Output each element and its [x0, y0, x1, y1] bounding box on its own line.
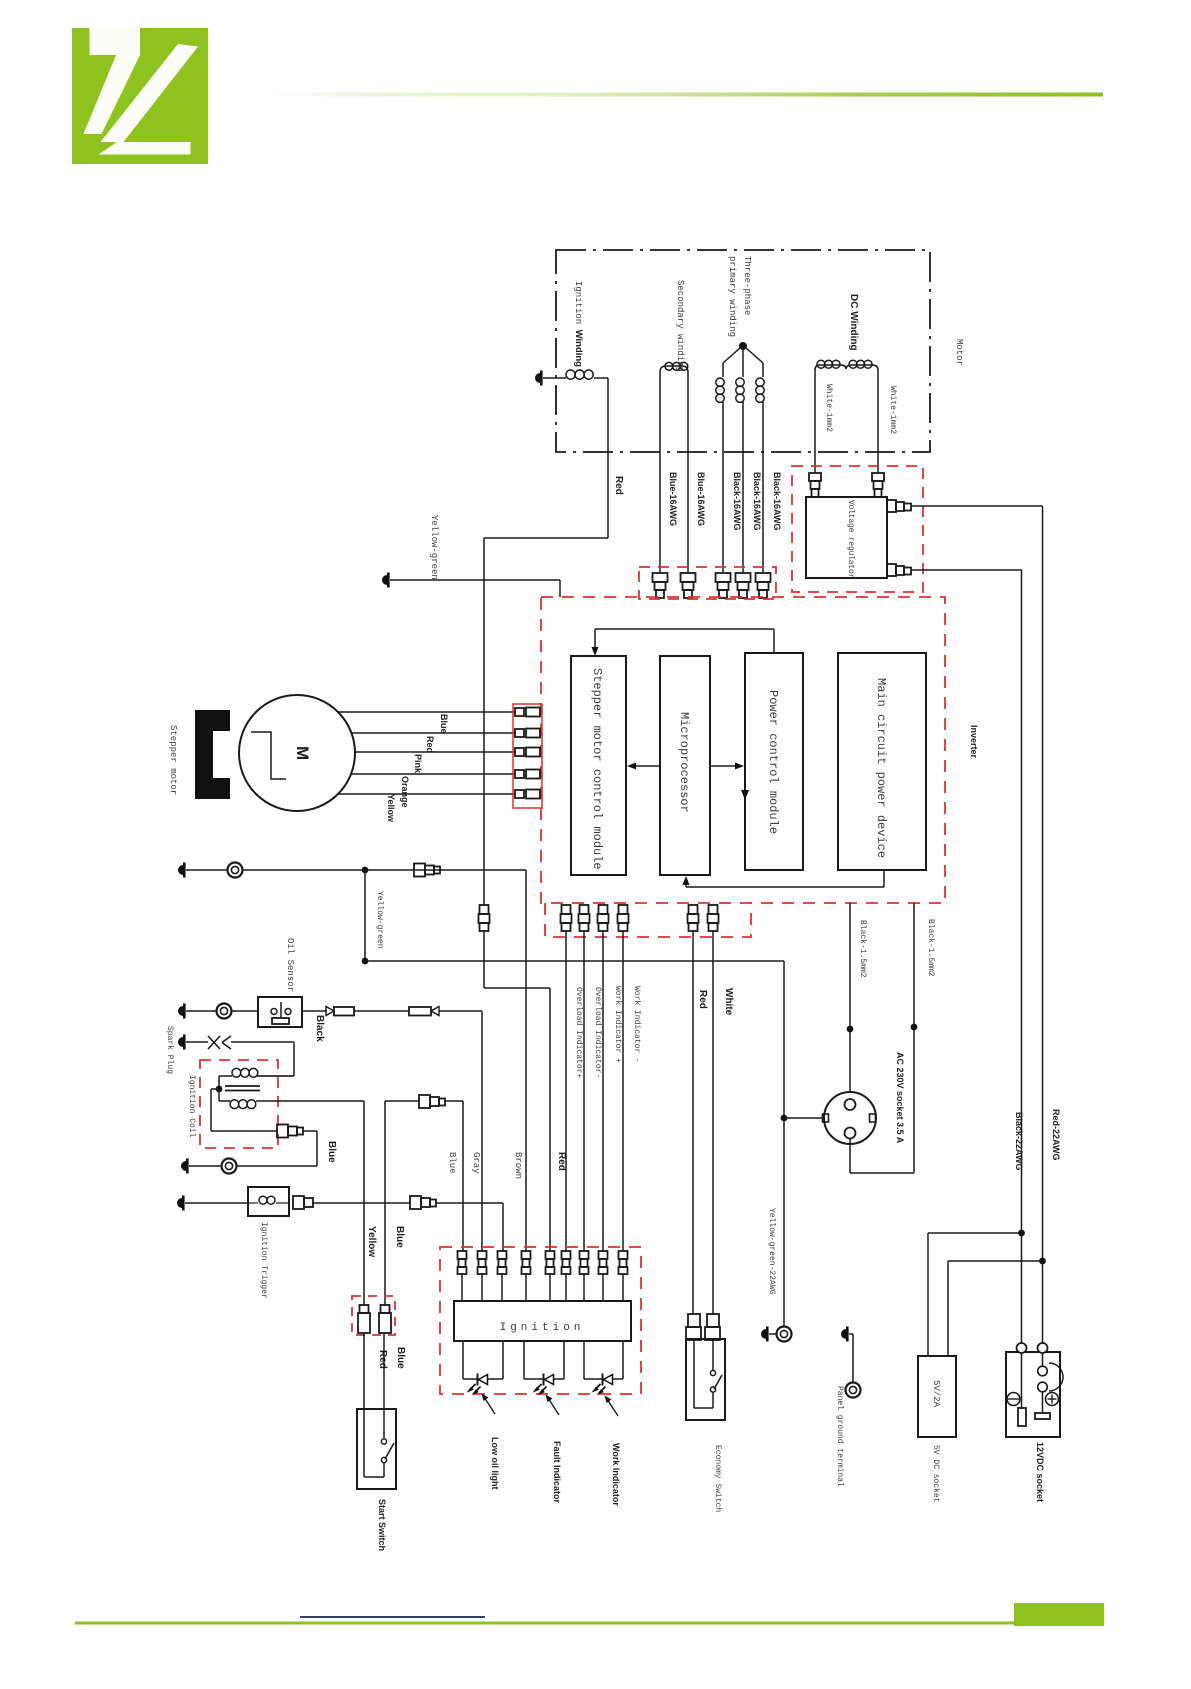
wire coil common to ground: [211, 1088, 219, 1090]
wire Blue loop: [384, 1101, 386, 1305]
connector ignition-in x=482: [478, 1251, 487, 1259]
inverter bottom connector bay: [545, 903, 751, 937]
svg-text:White-1mm2: White-1mm2: [888, 386, 897, 434]
motor dashed enclosure: [556, 250, 930, 452]
svg-text:Black-1.5mm2: Black-1.5mm2: [858, 920, 867, 978]
ignition winding terminal: [535, 373, 540, 383]
svg-text:White: White: [723, 988, 734, 1016]
coil core: [225, 1085, 260, 1087]
ring terminal: [217, 1004, 232, 1019]
wire Yellow-green to inverter: [390, 579, 560, 581]
stepper motor stator (black bracket): [195, 710, 230, 799]
three-phase winding phase B: [742, 349, 744, 377]
stepper pin connector y=712: [515, 708, 524, 716]
junction dot Red to 5V: [1039, 1258, 1046, 1265]
wire AC neutral to yellow-green tap: [784, 1117, 822, 1119]
pointer arrow fault: [548, 1398, 559, 1415]
connector ignition-in x=584: [580, 1251, 589, 1259]
svg-text:Red: Red: [377, 1350, 388, 1369]
svg-text:Work Indicator: Work Indicator: [611, 1443, 621, 1506]
LED fault indicator loop: [523, 1341, 525, 1379]
economy switch SW2: [686, 1339, 725, 1420]
connector ignition-in x=603: [599, 1251, 608, 1259]
junction dot: [362, 958, 369, 965]
module: stepper motor control module: [571, 656, 626, 875]
wire Red-22AWG run: [911, 505, 1043, 507]
svg-text:Blue: Blue: [447, 1152, 457, 1174]
svg-text:Work Indicator -: Work Indicator -: [632, 986, 641, 1063]
wire Blue to ground ring: [303, 1130, 317, 1132]
wire Black from oil sensor: [302, 1010, 327, 1012]
wire Work Indicator+: [602, 931, 604, 1251]
footer underline: [300, 1616, 485, 1618]
svg-text:Overload Indicator+: Overload Indicator+: [574, 987, 583, 1078]
inductor ignition winding: [566, 370, 575, 379]
AC 230V socket: [824, 1092, 876, 1144]
arrow microprocessor to power control: [710, 765, 737, 767]
wire to 5V socket pin1: [928, 1232, 1022, 1234]
stepper pin connector y=733: [515, 729, 524, 737]
inline connector: [414, 864, 425, 877]
svg-text:Yellow-green: Yellow-green: [429, 515, 439, 580]
panel ground terminal stud: [841, 1329, 846, 1339]
arrow down on power module edge: [741, 790, 749, 800]
svg-text:Blue: Blue: [395, 1347, 406, 1369]
svg-text:DC Winding: DC Winding: [848, 294, 859, 351]
inline connector on Red wire: [480, 905, 489, 914]
economy bullet connectors: [688, 1314, 700, 1327]
svg-text:Yellow-green: Yellow-green: [375, 891, 384, 949]
svg-text:Ignition: Ignition: [500, 1322, 585, 1334]
wire Yellow down: [363, 1101, 365, 1305]
wire Blue to ignition unit: [462, 1101, 464, 1251]
svg-text:Inverter: Inverter: [969, 725, 979, 759]
trigger terminal: [177, 1198, 182, 1208]
stepper pin connector y=774: [515, 770, 524, 778]
bullet connector wire x=723: [716, 573, 731, 582]
svg-text:M: M: [293, 746, 312, 760]
connector ignition-in x=526: [522, 1251, 531, 1259]
regulator output connector upper: [887, 500, 896, 512]
panel ground ring: [846, 1383, 861, 1398]
wire Gray down: [481, 1011, 483, 1251]
connector ignition-in x=550: [546, 1251, 555, 1259]
wire Brown down: [525, 870, 527, 1251]
wire AC line bottom: [849, 1139, 851, 1173]
spark gap: [208, 1036, 220, 1049]
wire terminal to ignition winding: [543, 377, 566, 379]
svg-text:Black-16AWG: Black-16AWG: [732, 472, 742, 531]
stepper pin connector y=752: [515, 748, 524, 756]
company logo: [72, 28, 208, 164]
arrow microprocessor to stepper module: [634, 765, 660, 767]
svg-text:12VDC socket: 12VDC socket: [1035, 1442, 1045, 1502]
ignition unit dashed enclosure: [440, 1247, 641, 1394]
wire economy Red: [692, 931, 694, 1314]
wire Work Indicator-: [622, 931, 624, 1251]
junction dot Black to 5V: [1018, 1230, 1025, 1237]
DC winding: [814, 370, 816, 473]
header gradient rule: [268, 93, 1103, 97]
svg-text:Blue-16AWG: Blue-16AWG: [696, 472, 706, 526]
connector ignition-in x=566: [562, 1251, 571, 1259]
inline connector: [410, 1196, 421, 1209]
stepper wire Red: [352, 732, 515, 734]
bus power-control to stepper module: [595, 628, 774, 630]
svg-text:Fault Indicator: Fault Indicator: [552, 1441, 562, 1504]
ground terminal: [181, 1161, 186, 1171]
oil sensor terminal: [178, 1006, 183, 1016]
wire Red: ignition winding to lower region: [607, 378, 609, 538]
stepper pin connector y=794: [515, 790, 524, 798]
svg-text:primary winding: primary winding: [727, 256, 737, 337]
LED work indicator loop: [583, 1341, 585, 1379]
start switch connector pair: [352, 1296, 395, 1335]
svg-text:AC 230V socket 3.5 A: AC 230V socket 3.5 A: [895, 1052, 905, 1144]
red dashed box around motor connectors: [639, 567, 776, 599]
svg-text:Overload Indicator-: Overload Indicator-: [593, 987, 602, 1078]
svg-text:Stepper motor: Stepper motor: [168, 725, 178, 795]
wire Black-22AWG run: [911, 569, 1022, 571]
wire Black-1.5mm2 right: [913, 903, 915, 1173]
trigger connector: [293, 1196, 304, 1209]
svg-text:Yellow: Yellow: [386, 794, 396, 823]
svg-text:Yellow-green-22AWG: Yellow-green-22AWG: [767, 1208, 776, 1295]
stepper wire Blue: [339, 711, 515, 713]
svg-text:Red-22AWG: Red-22AWG: [1051, 1109, 1061, 1161]
module: power control module: [745, 653, 803, 870]
svg-text:Voltage regulator: Voltage regulator: [846, 500, 855, 579]
stepper wire Pink: [355, 751, 515, 753]
svg-text:Black-1.5mm2: Black-1.5mm2: [926, 919, 935, 977]
svg-text:Low oil light: Low oil light: [490, 1437, 500, 1490]
connector ignition-in x=623: [619, 1251, 628, 1259]
connector inverter-out x=584: [580, 905, 589, 914]
wire Brown ground row: [243, 869, 526, 871]
svg-text:Ignition Trigger: Ignition Trigger: [259, 1222, 268, 1299]
connector ignition-in x=462: [458, 1251, 467, 1259]
svg-text:Ignition Winding: Ignition Winding: [573, 281, 584, 367]
stepper wire Orange: [352, 773, 515, 775]
svg-text:Red: Red: [697, 990, 708, 1009]
bullet connector wire x=763: [756, 573, 771, 582]
svg-text:Ignition Coil: Ignition Coil: [187, 1075, 196, 1138]
inline connector blue: [419, 1095, 430, 1108]
svg-text:Blue: Blue: [439, 714, 449, 734]
ring terminal: [222, 1159, 237, 1174]
voltage regulator dashed enclosure: [792, 466, 923, 592]
module: main circuit power device: [838, 653, 926, 870]
svg-text:Black-22AWG: Black-22AWG: [1014, 1112, 1024, 1171]
svg-text:Black: Black: [314, 1015, 325, 1042]
wire Black-1.5mm2 left: [849, 903, 851, 1092]
stepper wire Yellow: [339, 793, 515, 795]
svg-text:Black-16AWG: Black-16AWG: [752, 472, 762, 531]
connector inverter-out x=623: [619, 905, 628, 914]
svg-text:Stepper motor control module: Stepper motor control module: [590, 668, 604, 870]
wire Overload Indicator+: [565, 931, 567, 1251]
ignition coil dashed enclosure: [200, 1060, 278, 1148]
regulator input connector right: [872, 473, 884, 481]
svg-text:Blue: Blue: [394, 1226, 405, 1248]
svg-text:Oil Sensor: Oil Sensor: [285, 938, 295, 992]
bullet connector wire x=743: [736, 573, 751, 582]
wire spark plug to coil secondary: [231, 1041, 294, 1043]
wire to 5V socket pin2: [948, 1260, 1043, 1262]
svg-text:Three-phase: Three-phase: [742, 256, 752, 315]
svg-text:Orange: Orange: [400, 776, 410, 808]
svg-text:5V/2A: 5V/2A: [931, 1380, 941, 1408]
bullet connector wire x=688: [681, 573, 696, 582]
svg-text:Blue-16AWG: Blue-16AWG: [668, 472, 678, 526]
wire trigger to ignition unit: [313, 1202, 410, 1204]
svg-text:Red: Red: [613, 476, 624, 495]
svg-text:Red: Red: [425, 736, 435, 753]
connector inverter-out x=566: [562, 905, 571, 914]
pointer arrow work: [607, 1399, 618, 1416]
module: microprocessor: [660, 656, 710, 875]
svg-text:Panel ground terminal: Panel ground terminal: [835, 1386, 844, 1487]
bus main device to microprocessor: [686, 886, 884, 888]
junction dot AC socket tap: [781, 1115, 788, 1122]
svg-text:Pink: Pink: [413, 754, 423, 774]
12VDC socket: [1006, 1352, 1060, 1437]
5V/2A module: [918, 1356, 956, 1437]
svg-text:Spark Plug: Spark Plug: [165, 1026, 174, 1074]
svg-text:5V DC socket: 5V DC socket: [931, 1445, 940, 1503]
pointer arrow low oil: [484, 1397, 495, 1414]
connector inverter-out x=713: [709, 905, 718, 914]
junction dot: [218, 1076, 220, 1101]
start switch SW1: [363, 1333, 365, 1477]
LED low oil light loop: [462, 1341, 464, 1379]
three-phase primary winding star point: [739, 342, 747, 350]
stepper motor internal contact: [251, 732, 286, 779]
connector inverter-out x=693: [689, 905, 698, 914]
stepper connector red outline: [513, 704, 542, 808]
three-phase winding phase C: [762, 363, 764, 377]
voltage regulator U1: [806, 497, 887, 578]
svg-text:Yellow: Yellow: [366, 1226, 377, 1257]
inline connector: [277, 1125, 288, 1138]
wire yellow-green vertical: [364, 870, 366, 961]
stepper motor body M: [239, 695, 355, 811]
svg-text:Start Switch: Start Switch: [377, 1499, 387, 1551]
ignition coil secondary winding: [219, 1075, 232, 1077]
terminal stud: [761, 1329, 766, 1339]
footer green rule: [75, 1622, 1014, 1625]
svg-text:Blue: Blue: [326, 1141, 337, 1163]
three-phase winding phase A: [722, 363, 724, 377]
svg-text:Microprocessor: Microprocessor: [677, 712, 691, 813]
connector ignition-in x=502: [498, 1251, 507, 1259]
bullet connector left: [360, 1305, 369, 1313]
svg-text:Main circuit power device: Main circuit power device: [874, 678, 888, 858]
inverter dashed enclosure: [541, 597, 945, 903]
bullet connector right: [381, 1305, 390, 1313]
svg-text:White-1mm2: White-1mm2: [824, 384, 833, 432]
svg-text:Gray: Gray: [471, 1152, 481, 1174]
svg-text:Brown: Brown: [513, 1152, 523, 1179]
chassis terminal: [178, 865, 183, 875]
svg-text:Power control module: Power control module: [766, 690, 780, 834]
svg-text:Secondary winding: Secondary winding: [675, 280, 685, 372]
wire yellow-green down to ring: [783, 961, 785, 1326]
ignition module: [454, 1301, 631, 1341]
junction dot: [362, 867, 369, 874]
wire Overload Indicator-: [583, 931, 585, 1251]
connector inverter-out x=603: [599, 905, 608, 914]
secondary winding: [659, 372, 661, 573]
footer green block: [1014, 1603, 1104, 1626]
ignition trigger pickup: [248, 1187, 289, 1216]
wire economy White: [712, 931, 714, 1314]
spark plug terminal: [178, 1037, 183, 1047]
svg-text:Black-16AWG: Black-16AWG: [772, 472, 782, 531]
earth terminal top-left: [382, 575, 387, 585]
wire Yellow: primary to start switch: [256, 1100, 364, 1102]
svg-text:Economy Switch: Economy Switch: [713, 1445, 722, 1512]
ignition coil primary winding: [230, 1100, 239, 1109]
wire Red continues with jog: [483, 931, 485, 988]
ring terminal: [186, 869, 227, 871]
regulator input connector left: [809, 473, 821, 481]
svg-text:Work Indicator +: Work Indicator +: [613, 986, 622, 1063]
bullet connector wire x=660: [653, 573, 668, 582]
wire yellow-green horizontal: [365, 960, 784, 962]
regulator output connector lower: [887, 564, 896, 576]
svg-text:Motor: Motor: [954, 339, 964, 366]
ring terminal yellow-green: [777, 1327, 792, 1342]
oil sensor S1: [258, 997, 302, 1027]
